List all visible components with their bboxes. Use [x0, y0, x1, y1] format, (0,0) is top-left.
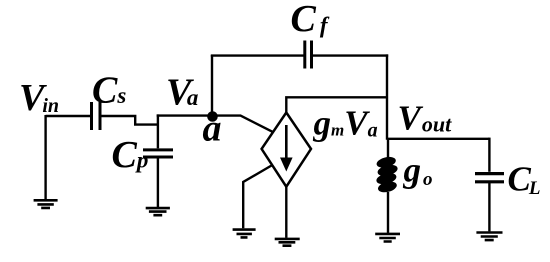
- svg-text:Vin: Vin: [19, 77, 59, 119]
- svg-text:Vout: Vout: [398, 99, 453, 138]
- svg-text:Cf: Cf: [291, 0, 330, 40]
- svg-text:a: a: [203, 108, 222, 150]
- svg-text:Cs: Cs: [92, 69, 126, 111]
- svg-text:Cp: Cp: [112, 134, 149, 176]
- svg-text:CL: CL: [508, 160, 541, 200]
- svg-text:go: go: [403, 151, 433, 190]
- svg-text:Va: Va: [166, 72, 198, 114]
- svg-text:gmVa: gmVa: [313, 104, 378, 143]
